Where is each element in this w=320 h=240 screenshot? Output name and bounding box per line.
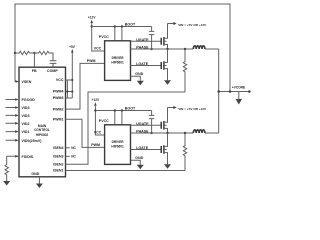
svg-text:GND: GND [31, 172, 39, 176]
svg-text:VCC: VCC [94, 47, 102, 51]
svg-text:ISEN4: ISEN4 [53, 146, 63, 150]
svg-text:VID4: VID4 [22, 106, 30, 110]
svg-text:VID2: VID2 [22, 122, 30, 126]
svg-text:HIP6302: HIP6302 [36, 133, 49, 137]
svg-text:PVCC: PVCC [99, 35, 109, 39]
svg-text:VSEN: VSEN [22, 80, 32, 84]
svg-text:NC: NC [71, 146, 76, 150]
svg-text:FB: FB [32, 69, 37, 73]
svg-text:LGATE: LGATE [136, 62, 149, 66]
svg-text:+12V: +12V [88, 16, 96, 20]
svg-text:ISEN1: ISEN1 [53, 169, 63, 173]
svg-text:PWM1: PWM1 [53, 117, 64, 121]
svg-text:NC: NC [71, 155, 76, 159]
svg-text:VID1: VID1 [22, 130, 30, 134]
svg-text:COMP: COMP [47, 69, 58, 73]
svg-text:VIN = +5V OR +12V: VIN = +5V OR +12V [178, 23, 207, 27]
svg-text:VID3: VID3 [22, 114, 30, 118]
svg-text:UGATE: UGATE [136, 38, 149, 42]
svg-text:CONTROL: CONTROL [34, 128, 50, 132]
svg-text:FS/DIS: FS/DIS [22, 155, 34, 159]
svg-text:BOOT: BOOT [125, 23, 136, 27]
svg-text:PHASE: PHASE [136, 46, 149, 50]
svg-text:ISEN2: ISEN2 [53, 162, 63, 166]
svg-text:PGOOD: PGOOD [22, 98, 36, 102]
svg-text:ISEN3: ISEN3 [53, 155, 63, 159]
svg-text:PWM2: PWM2 [53, 107, 64, 111]
svg-text:PWM: PWM [91, 143, 100, 147]
svg-text:PWM: PWM [87, 59, 96, 63]
svg-text:VCC: VCC [56, 78, 64, 82]
svg-text:VID0(25mV): VID0(25mV) [22, 139, 43, 143]
svg-text:+VCORE: +VCORE [232, 85, 245, 89]
svg-text:+5V: +5V [69, 45, 76, 49]
svg-text:GND: GND [135, 72, 143, 76]
svg-text:PWM3: PWM3 [53, 96, 64, 100]
svg-text:PWM4: PWM4 [53, 90, 64, 94]
svg-text:HIP6601: HIP6601 [111, 60, 124, 64]
svg-text:+12V: +12V [92, 98, 100, 102]
